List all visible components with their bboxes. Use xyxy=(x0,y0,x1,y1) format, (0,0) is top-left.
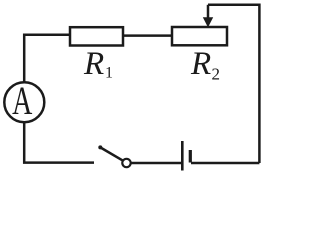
svg-text:R: R xyxy=(83,46,104,82)
svg-text:2: 2 xyxy=(212,64,221,83)
svg-text:A: A xyxy=(12,79,32,123)
wire xyxy=(131,162,181,165)
label R2 xyxy=(190,46,220,84)
label R1 xyxy=(83,46,113,82)
wire xyxy=(24,122,94,163)
switch S1 xyxy=(98,145,130,167)
wire xyxy=(208,5,259,163)
wire xyxy=(24,35,70,83)
ammeter A1 xyxy=(4,79,44,123)
svg-text:R: R xyxy=(190,46,211,82)
svg-text:1: 1 xyxy=(105,65,113,82)
wire xyxy=(123,34,172,37)
wiper arrow xyxy=(203,5,213,28)
wire xyxy=(191,162,259,165)
resistor R1 xyxy=(70,27,123,45)
battery B1 xyxy=(182,141,190,171)
resistor R2 xyxy=(172,27,227,45)
